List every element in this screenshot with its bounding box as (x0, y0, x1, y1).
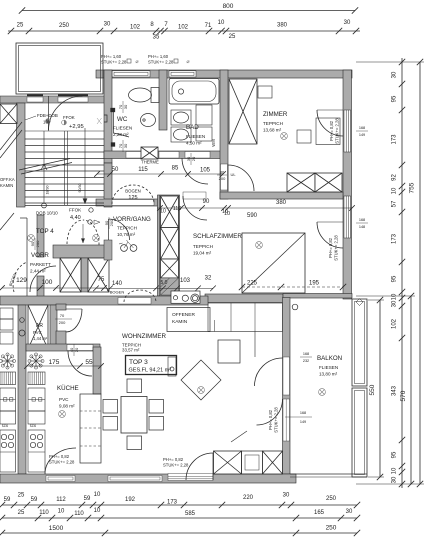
door WC (111, 108, 116, 112)
svg-text:PH+= 0,82: PH+= 0,82 (328, 237, 333, 258)
svg-text:30: 30 (104, 22, 111, 28)
door BAD (182, 158, 208, 184)
dim hall line (97, 173, 223, 175)
door kueche (68, 351, 92, 376)
door schlafzimmer (183, 196, 207, 220)
svg-text:755: 755 (409, 182, 416, 193)
svg-text:30: 30 (123, 104, 128, 109)
svg-text:30: 30 (283, 493, 290, 499)
wall WC west (104, 70, 112, 163)
svg-text:TOP 3: TOP 3 (129, 359, 148, 366)
svg-text:10: 10 (160, 209, 166, 215)
dimension line right overall 755 (419, 62, 421, 484)
svg-text:BOGEN: BOGEN (125, 189, 141, 194)
svg-text:110: 110 (173, 206, 182, 212)
dimension line bottom row1 (2, 504, 357, 506)
svg-text:PVC: PVC (59, 397, 69, 402)
svg-text:149: 149 (300, 420, 306, 424)
bed schlafzimmer (242, 233, 305, 293)
THERME boiler (141, 147, 158, 159)
svg-text:ZIMMER: ZIMMER (263, 111, 288, 118)
svg-text:10: 10 (222, 209, 228, 215)
svg-text:13,68 m²: 13,68 m² (263, 128, 282, 133)
wall zimmer west (220, 70, 228, 199)
table zimmer (297, 130, 311, 143)
svg-text:168: 168 (300, 411, 306, 415)
svg-text:FLIESEN: FLIESEN (186, 134, 205, 139)
dim left band (96, 287, 213, 289)
svg-text:343: 343 (392, 385, 398, 396)
TOP4 wardrobes (81, 258, 88, 292)
svg-text:+2,95: +2,95 (69, 124, 84, 130)
svg-text:192: 192 (125, 497, 136, 503)
svg-text:102: 102 (178, 25, 189, 31)
wall TOP4 band (53, 245, 110, 258)
door lobby lower (30, 266, 56, 292)
svg-text:25: 25 (18, 510, 25, 516)
svg-text:10: 10 (94, 492, 101, 498)
svg-text:232: 232 (303, 359, 309, 363)
svg-text:FFOK: FFOK (69, 208, 82, 213)
break lines left edge (0, 122, 22, 150)
svg-text:85: 85 (172, 166, 179, 172)
svg-text:140: 140 (112, 281, 123, 287)
svg-text:380: 380 (277, 23, 288, 29)
stair landing (25, 205, 104, 207)
svg-text:KAMIN: KAMIN (172, 319, 188, 325)
stairs walkline right (84, 128, 86, 202)
svg-text:PH+= 1,60: PH+= 1,60 (148, 54, 169, 59)
svg-text:57: 57 (392, 200, 398, 207)
svg-text:BAD: BAD (186, 124, 199, 131)
svg-text:570: 570 (400, 390, 407, 401)
svg-text:175: 175 (49, 359, 60, 366)
svg-text:⌀: ⌀ (135, 59, 138, 65)
svg-text:92: 92 (392, 174, 398, 181)
svg-text:STUK+= 2,28: STUK+= 2,28 (163, 463, 189, 468)
svg-text:1,44 m²: 1,44 m² (33, 336, 48, 341)
svg-text:103: 103 (180, 278, 191, 284)
sideboard row (214, 451, 242, 474)
svg-text:STUK+= 2,28: STUK+= 2,28 (274, 407, 279, 433)
svg-text:10: 10 (58, 509, 65, 515)
svg-text:FLIESEN: FLIESEN (319, 365, 338, 370)
svg-text:250: 250 (326, 496, 337, 502)
wall kueche east (93, 347, 101, 394)
svg-text:9,08 m²: 9,08 m² (59, 404, 75, 409)
svg-text:KAMIN: KAMIN (0, 183, 13, 188)
svg-text:VORR: VORR (31, 252, 49, 259)
svg-text:PH+= 0,82: PH+= 0,82 (268, 409, 273, 430)
svg-text:TEPPICH: TEPPICH (117, 226, 137, 231)
balcony window arc (257, 399, 283, 425)
svg-text:10: 10 (392, 467, 398, 474)
wall hall west (104, 163, 112, 207)
svg-text:30: 30 (392, 300, 398, 307)
stairs break line (19, 159, 70, 171)
window-door zimmer east (317, 109, 343, 111)
svg-text:⌀: ⌀ (186, 59, 189, 65)
svg-text:110: 110 (74, 511, 84, 517)
bicycle symbol corridor (121, 245, 128, 252)
svg-text:FLIESEN: FLIESEN (113, 126, 132, 131)
svg-text:168: 168 (359, 218, 365, 222)
AR closet X (28, 305, 48, 349)
toilet WC (129, 88, 152, 102)
wall lobby left thin (26, 218, 28, 296)
dimension line bottom row2 (2, 517, 357, 519)
wall top exterior (96, 70, 352, 78)
svg-text:70: 70 (60, 313, 65, 318)
svg-text:UL: UL (230, 172, 236, 177)
svg-text:250: 250 (59, 23, 70, 29)
svg-text:BALKON: BALKON (317, 355, 342, 362)
svg-text:59: 59 (4, 497, 11, 503)
svg-text:148: 148 (359, 225, 365, 229)
dimension line right 550 (379, 300, 381, 477)
svg-text:5,0: 5,0 (161, 280, 168, 286)
svg-text:10: 10 (392, 293, 398, 300)
outlet symbol 4 (59, 411, 66, 418)
svg-text:250: 250 (326, 525, 337, 532)
svg-text:168: 168 (359, 126, 365, 130)
svg-text:VORR/GANG: VORR/GANG (113, 216, 151, 223)
svg-text:WM: WM (211, 139, 216, 147)
svg-text:GES.FL 94,21 m²: GES.FL 94,21 m² (129, 368, 172, 374)
svg-text:100: 100 (42, 279, 53, 286)
dimension line bottom row3 (2, 532, 357, 534)
washing machine (196, 105, 212, 125)
door neighbor bottom (45, 448, 76, 474)
svg-text:SCHLAFZIMMER: SCHLAFZIMMER (193, 233, 242, 240)
svg-text:102: 102 (130, 25, 141, 31)
witness lines right (356, 61, 424, 63)
balcony railing (352, 299, 367, 386)
outlet symbol 7 (28, 235, 35, 242)
cabinets wohnzimmer north (208, 303, 283, 332)
wall AR east (50, 305, 57, 350)
svg-text:380: 380 (276, 200, 287, 206)
dimension line right 570 (410, 296, 412, 484)
svg-text:129: 129 (16, 277, 27, 284)
svg-text:STUK+= 2,28: STUK+= 2,28 (334, 235, 339, 261)
balcony door arc (255, 358, 283, 386)
neighbor counter (8, 360, 15, 362)
svg-text:STUK+= 2,28: STUK+= 2,28 (49, 460, 75, 465)
svg-text:20: 20 (74, 347, 79, 352)
svg-text:590: 590 (247, 213, 258, 219)
svg-text:TEPPICH: TEPPICH (263, 121, 283, 126)
svg-text:125: 125 (128, 195, 137, 201)
wall bottom exterior (0, 474, 296, 483)
dining table (121, 397, 147, 434)
TOP4 entry dashed arcs (67, 220, 83, 244)
dimension line top chain (8, 30, 360, 32)
wardrobe zimmer (287, 173, 315, 192)
outlet symbol 1 (281, 133, 288, 140)
svg-text:30: 30 (123, 143, 128, 148)
svg-text:173: 173 (392, 134, 398, 145)
svg-text:19,04 m²: 19,04 m² (193, 251, 212, 256)
outlet symbol 5 (198, 387, 205, 394)
svg-text:75: 75 (98, 277, 105, 283)
svg-text:PH+= 0,82: PH+= 0,82 (329, 120, 334, 141)
svg-text:168: 168 (303, 352, 309, 356)
svg-text:PH+= 1,60: PH+= 1,60 (101, 54, 122, 59)
svg-text:4,50 m²: 4,50 m² (186, 141, 202, 146)
level mark lobby (88, 220, 92, 224)
svg-text:FFOK: FFOK (63, 115, 75, 120)
svg-text:10: 10 (218, 20, 225, 26)
svg-text:30: 30 (346, 509, 353, 515)
wall stairwell north (0, 96, 105, 103)
svg-text:90: 90 (203, 199, 210, 205)
wall stair west (17, 103, 26, 207)
svg-text:200: 200 (219, 176, 226, 181)
wall hall south (96, 199, 166, 206)
wall right exterior (343, 70, 352, 299)
svg-text:102: 102 (392, 318, 398, 329)
BOGEN arch wohnzimmer (124, 290, 156, 302)
stairs treads (25, 138, 104, 140)
svg-text:95: 95 (392, 95, 398, 102)
svg-text:95: 95 (392, 275, 398, 282)
door zimmer (228, 165, 254, 191)
svg-text:PVC: PVC (33, 330, 42, 335)
dimension line top overall 800 (22, 10, 355, 12)
fireplace hearth (171, 291, 200, 303)
outlet symbol 6 (93, 235, 100, 242)
svg-text:18/30: 18/30 (46, 186, 50, 195)
washbasin WC (141, 114, 156, 127)
svg-text:THERME: THERME (141, 160, 159, 165)
wall TOP4 vorr east (37, 215, 44, 257)
svg-text:4,40: 4,40 (70, 215, 81, 221)
svg-text:GS: GS (2, 423, 8, 428)
svg-text:30: 30 (392, 476, 398, 483)
svg-text:195: 195 (309, 281, 320, 287)
svg-text:OFF.KA: OFF.KA (0, 177, 15, 182)
svg-text:32: 32 (205, 276, 212, 282)
wall zimmer south (220, 192, 343, 199)
door entry hall (49, 96, 83, 131)
label TOP3 box (126, 356, 177, 375)
svg-text:2,28 m²: 2,28 m² (113, 132, 129, 137)
wall WC-BAD divider (159, 70, 167, 130)
svg-text:25: 25 (229, 34, 236, 40)
neighbor closet boxes (0, 308, 13, 319)
svg-text:35: 35 (153, 35, 160, 41)
svg-text:550: 550 (369, 384, 376, 395)
svg-text:33,57 m²: 33,57 m² (122, 348, 140, 353)
svg-text:FDB+DOB: FDB+DOB (37, 113, 58, 118)
svg-text:25: 25 (17, 23, 24, 29)
svg-text:200: 200 (59, 320, 66, 325)
svg-text:GS: GS (30, 423, 36, 428)
sofa group (218, 340, 240, 363)
kueche island (80, 394, 101, 463)
wall bad south (104, 151, 223, 159)
svg-text:80: 80 (220, 170, 225, 175)
BOGEN lobby dashed (13, 262, 27, 292)
dim kueche (27, 365, 101, 367)
neighbor room bed X (0, 104, 17, 124)
svg-text:59: 59 (31, 497, 38, 503)
svg-text:2,44 m²: 2,44 m² (30, 269, 46, 274)
svg-text:25: 25 (18, 493, 25, 499)
svg-text:115: 115 (138, 167, 148, 173)
svg-text:1500: 1500 (49, 525, 64, 532)
stairs walkline left (43, 131, 45, 204)
svg-text:PH+= 0,82: PH+= 0,82 (49, 454, 70, 459)
door lobby upper (108, 219, 110, 240)
svg-text:149: 149 (359, 133, 365, 137)
svg-text:10/: 10/ (43, 120, 50, 125)
svg-text:BOGEN: BOGEN (110, 290, 125, 295)
svg-text:90/30: 90/30 (78, 184, 82, 193)
svg-text:STUK+= 2,28: STUK+= 2,28 (148, 60, 174, 65)
svg-text:KÜCHE: KÜCHE (57, 385, 79, 392)
svg-text:220: 220 (243, 495, 254, 501)
wall stub corridor door (104, 240, 112, 260)
svg-text:225: 225 (247, 281, 258, 287)
svg-text:WOHNZIMMER: WOHNZIMMER (122, 333, 167, 340)
dim schlafzimmer top (157, 207, 352, 209)
wall balcony north (283, 294, 352, 299)
outlet symbol 2 (256, 242, 263, 249)
svg-text:200: 200 (35, 240, 40, 247)
svg-text:OFFENER: OFFENER (172, 312, 195, 318)
svg-text:WC: WC (117, 116, 128, 123)
svg-text:200: 200 (109, 219, 114, 226)
sinks BAD (171, 110, 191, 125)
svg-text:STUK+= 2,28: STUK+= 2,28 (101, 60, 127, 65)
wall wohnzimmer east (283, 298, 291, 475)
svg-text:59: 59 (84, 496, 91, 502)
svg-text:71: 71 (205, 23, 212, 29)
svg-text:PH+= 0,82: PH+= 0,82 (163, 457, 184, 462)
nightstand zimmer (258, 86, 272, 98)
dim schlafzimmer 225-195 (242, 286, 343, 288)
bathtub BAD (169, 79, 219, 105)
svg-text:173: 173 (167, 500, 178, 506)
svg-text:10,76 m²: 10,76 m² (117, 232, 136, 237)
window-door schlafzimmer east (317, 221, 343, 223)
wall band left y296 (0, 296, 208, 305)
svg-text:10: 10 (392, 187, 398, 194)
wall schlafzimmer south (205, 294, 283, 303)
svg-text:TOP 4: TOP 4 (36, 228, 54, 235)
door bottom entry (186, 453, 213, 480)
svg-text:30: 30 (344, 20, 351, 26)
BOGEN arch corridor (112, 185, 154, 204)
svg-text:585: 585 (185, 511, 196, 517)
svg-text:165: 165 (314, 510, 325, 516)
kueche counter (36, 360, 43, 362)
svg-text:TEPPICH: TEPPICH (193, 244, 213, 249)
svg-text:173: 173 (392, 233, 398, 244)
svg-text:AR: AR (36, 323, 43, 329)
svg-text:30: 30 (392, 71, 398, 78)
svg-text:50: 50 (112, 167, 119, 173)
wall kueche north (26, 344, 100, 351)
svg-text:13,80 m²: 13,80 m² (319, 372, 338, 377)
door AR (66, 308, 82, 310)
outlet symbol 3 (319, 389, 326, 396)
svg-text:DOB 10/10: DOB 10/10 (36, 211, 58, 216)
svg-text:PARKETT: PARKETT (30, 262, 51, 267)
wall kitchen divider (18, 305, 26, 474)
door handle circle (292, 304, 298, 310)
shaft column (158, 195, 180, 296)
svg-text:STUK+= 2,28: STUK+= 2,28 (335, 118, 340, 144)
svg-text:10: 10 (94, 508, 101, 514)
svg-text:20: 20 (191, 156, 196, 161)
svg-text:112: 112 (56, 497, 66, 503)
svg-text:55: 55 (85, 359, 93, 366)
svg-text:105: 105 (200, 168, 211, 174)
svg-text:110: 110 (39, 510, 49, 516)
terrace outline top-left (16, 43, 103, 94)
OFFENER KAMIN label box (167, 308, 210, 332)
svg-text:800: 800 (223, 3, 234, 10)
dimension line right chain (401, 58, 403, 488)
divider wall circles (20, 318, 25, 323)
bed zimmer (229, 79, 257, 144)
AR door jambs (56, 304, 66, 310)
svg-text:95: 95 (392, 451, 398, 458)
